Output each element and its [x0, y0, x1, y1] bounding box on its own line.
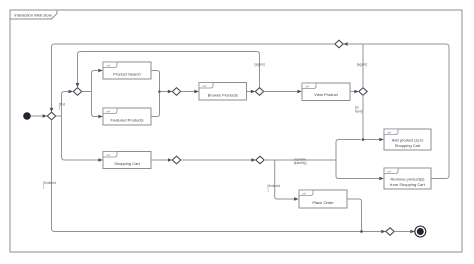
svg-text:quantity]: quantity] — [294, 161, 307, 165]
svg-text:Shopping Cart: Shopping Cart — [114, 161, 140, 166]
junction dot right bracket — [158, 90, 161, 93]
wire big loop from Remove box right edge up and across to M1 — [343, 42, 449, 178]
wire M2 to View Product — [264, 90, 302, 94]
svg-text:]: ] — [268, 188, 269, 192]
wire Place Order output down to bottom line — [347, 199, 362, 232]
junction dot bottom line — [360, 230, 363, 233]
wire right bracket joining outputs of Product Search and Featured Products — [151, 71, 160, 117]
junction dot before Add box — [362, 138, 365, 141]
decision D1 — [47, 112, 55, 120]
svg-text:[finished: [finished — [43, 181, 56, 185]
svg-text:Browse Products: Browse Products — [208, 93, 238, 98]
decision D2 merge before search/featured split — [73, 88, 81, 96]
decision D4 after View Product — [359, 88, 367, 96]
wire M1 left then down into D1 top — [50, 44, 335, 112]
guard [update quantity] — [294, 157, 307, 165]
ref box Place Order — [299, 190, 347, 208]
svg-text:Shopping Cart: Shopping Cart — [395, 143, 421, 148]
svg-text:Place Order: Place Order — [312, 200, 334, 205]
wire Ma to Browse Products — [181, 90, 199, 94]
merge D5 — [172, 156, 180, 164]
final node — [415, 226, 426, 237]
guard [finished] left — [43, 181, 56, 189]
svg-text:[finished: [finished — [268, 184, 281, 188]
wire D6 right [update quantity] to x336 then up to Add junction — [264, 140, 361, 161]
wire D1 bottom [finished] down and along bottom to merge M3 — [52, 120, 386, 234]
wire M3 to final node — [394, 230, 415, 234]
wire D4 bottom [to item] down to junction then into Add box — [363, 95, 384, 141]
svg-text:from Shopping Cart: from Shopping Cart — [390, 182, 426, 187]
ref box Add product(s) to Shopping Cart — [384, 129, 431, 150]
wire x336 down branch to Remove box — [336, 160, 384, 180]
svg-text:]: ] — [59, 106, 60, 110]
merge Ma before Browse Products — [172, 88, 180, 96]
wire bracket stub to merge Ma — [160, 90, 173, 94]
svg-text:item]: item] — [355, 110, 362, 114]
wire left bracket down branch to Featured Products — [92, 92, 103, 119]
ref box Product Search — [103, 62, 151, 79]
wire D1 T junction down to Shopping Cart — [62, 116, 103, 162]
merge M1 on top loop — [335, 40, 343, 48]
svg-text:[again]: [again] — [254, 62, 264, 66]
wire D2 to left bracket — [82, 91, 92, 93]
svg-text:View Product: View Product — [314, 92, 338, 97]
decision M2 after Browse Products — [255, 88, 263, 96]
initial node — [23, 112, 31, 120]
wire D4 top [again] up to top line — [362, 44, 364, 88]
wire D5 to D6 — [181, 158, 256, 162]
decision D6 — [256, 156, 264, 164]
wire D1 right to T junction x61.5 then up to D2 ([find] branch) — [56, 90, 73, 116]
ref box Browse Products — [199, 83, 247, 101]
wire left bracket up branch to Product Search — [92, 69, 103, 92]
guard [find] — [59, 102, 66, 110]
ref box Featured Products — [103, 108, 151, 125]
ref box View Product — [302, 83, 350, 101]
svg-text:[find: [find — [59, 102, 66, 106]
wire Shopping Cart to D5 — [151, 158, 172, 162]
svg-text:Product Search: Product Search — [113, 72, 141, 77]
ref box Remove product(s) from Shopping Cart — [384, 168, 431, 189]
svg-text:[again]: [again] — [357, 62, 367, 66]
svg-text:]: ] — [43, 185, 44, 189]
wire [finished] branch from cart line down to Place Order — [275, 160, 299, 201]
svg-text:Featured Products: Featured Products — [111, 118, 144, 123]
wire loop [again] from M2 top across y51.5 down into D2 top — [76, 52, 260, 88]
guard [to item] — [355, 106, 362, 114]
merge M3 before final — [386, 228, 394, 236]
guard [finished] right — [268, 184, 281, 192]
wire Browse Products to M2 — [247, 90, 256, 94]
wire View Product to D4 — [350, 90, 359, 94]
svg-text:interaction Web store: interaction Web store — [15, 13, 53, 18]
wire initial to D1 — [31, 114, 47, 118]
ref box Shopping Cart — [103, 152, 151, 169]
